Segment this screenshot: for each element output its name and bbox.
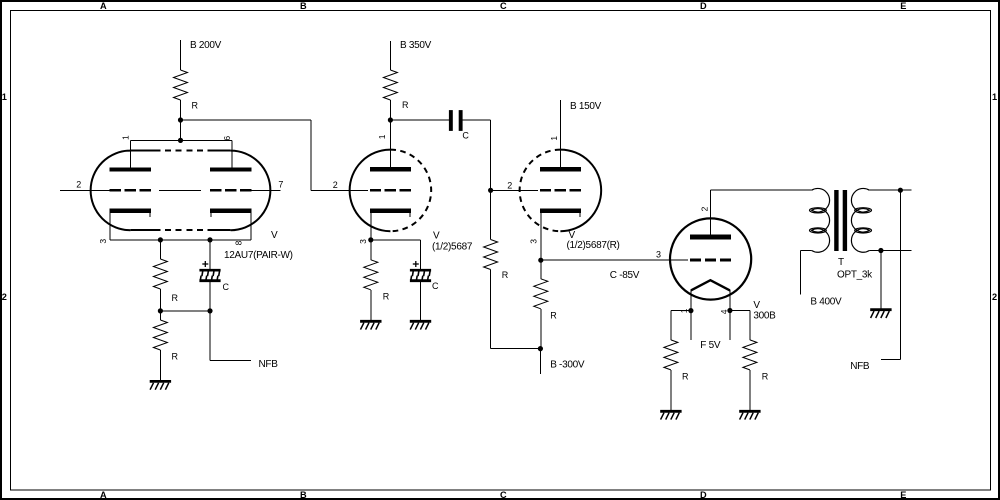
- wire V2 cathode to R5: [370, 240, 372, 260]
- wire R8 to ground: [749, 370, 751, 410]
- svg-text:B 150V: B 150V: [570, 101, 602, 112]
- svg-text:1: 1: [2, 92, 7, 102]
- wire secondary top: [869, 189, 911, 191]
- wire V3 cathode down to R6: [540, 260, 542, 279]
- svg-text:F 5V: F 5V: [700, 340, 721, 351]
- svg-text:C: C: [500, 1, 507, 11]
- wire stage1 plate to stage2 grid (horizontal): [181, 119, 312, 121]
- svg-text:12AU7(PAIR-W): 12AU7(PAIR-W): [224, 250, 293, 261]
- junction B-300V rail: [538, 346, 543, 351]
- svg-text:3: 3: [529, 239, 539, 244]
- resistor R5 (V2 cathode): [364, 260, 390, 302]
- V1 left plate: [110, 167, 151, 171]
- resistor R2b (cathode lower): [153, 320, 178, 362]
- junction secondary bottom: [878, 248, 883, 253]
- svg-text:V: V: [271, 230, 278, 241]
- V3 grid (dashed): [540, 189, 581, 192]
- svg-text:B: B: [300, 490, 307, 500]
- svg-text:C: C: [500, 490, 507, 500]
- wire C3 to ground: [420, 282, 422, 320]
- junction V2 plate node: [388, 117, 393, 122]
- svg-text:1: 1: [121, 135, 131, 140]
- svg-text:OPT_3k: OPT_3k: [837, 269, 873, 280]
- svg-text:D: D: [700, 490, 707, 500]
- wire secondary bottom: [869, 250, 911, 252]
- junction plate bus: [178, 138, 183, 143]
- V4 name label: [753, 300, 776, 322]
- svg-text:1: 1: [377, 134, 387, 139]
- node B 150V: [560, 100, 601, 168]
- tube V2 envelope (half dashed right): [350, 150, 432, 232]
- wire V4 plate to transformer primary: [711, 189, 812, 191]
- junction V2 cathode: [368, 237, 373, 242]
- V4 plate: [690, 234, 731, 239]
- ground secondary: [870, 310, 891, 318]
- wire primary bottom: [801, 250, 812, 252]
- V2 grid (dashed): [370, 189, 411, 192]
- V1 pin3 cathode leg: [109, 213, 111, 240]
- junction node stage1 plate: [178, 117, 183, 122]
- svg-text:E: E: [900, 490, 906, 500]
- svg-text:B -300V: B -300V: [550, 359, 585, 370]
- wire bus to C1: [209, 240, 211, 269]
- svg-text:V: V: [433, 230, 440, 241]
- V3 plate: [540, 167, 581, 171]
- V1 plate lead pin6: [231, 140, 233, 167]
- ground C3: [410, 321, 431, 329]
- resistor R1 (12AU7 plate load): [174, 70, 199, 111]
- tube V1 12AU7 envelope (stadium, dashed mid): [91, 151, 271, 231]
- node B 350V: [390, 40, 431, 70]
- V1 grid link wire: [159, 189, 201, 191]
- svg-text:R: R: [192, 101, 199, 111]
- wire V2 cathode to C3: [371, 239, 421, 241]
- V2 name label: [432, 230, 473, 252]
- svg-text:8: 8: [234, 240, 244, 245]
- V1 left grid (dashed): [110, 189, 151, 192]
- resistor R8 (filament right): [743, 340, 769, 382]
- junction V3 cathode: [538, 258, 543, 263]
- junction V3 grid node: [488, 188, 493, 193]
- svg-text:A: A: [100, 490, 107, 500]
- wire R6 to rail junction: [540, 309, 542, 349]
- wire R2a to R2b junction: [159, 289, 161, 320]
- svg-text:1: 1: [992, 92, 997, 102]
- svg-text:R: R: [762, 371, 769, 381]
- svg-text:T: T: [838, 257, 844, 268]
- transformer T primary winding: [810, 188, 830, 252]
- svg-text:R: R: [550, 311, 557, 321]
- V1 right plate: [210, 167, 251, 171]
- wire R3 to V2 plate: [389, 100, 391, 167]
- svg-text:2: 2: [2, 292, 7, 302]
- svg-text:V: V: [753, 300, 760, 311]
- svg-text:2: 2: [699, 206, 709, 211]
- svg-text:3: 3: [98, 239, 108, 244]
- junction filament left: [688, 308, 693, 313]
- ground filament right: [739, 411, 760, 419]
- transformer T secondary winding: [851, 188, 871, 252]
- V1 plate lead pin1: [130, 140, 132, 167]
- resistor R7 (filament left): [664, 340, 689, 382]
- svg-text:6: 6: [222, 136, 232, 141]
- wire rail horizontal: [491, 348, 541, 350]
- capacitor C1 (cathode bypass, electrolytic): [199, 261, 229, 292]
- wire to V3 grid: [491, 189, 538, 191]
- svg-text:R: R: [172, 352, 179, 362]
- svg-text:R: R: [402, 100, 409, 110]
- junction secondary top: [898, 188, 903, 193]
- tube V3 envelope (half dashed left): [520, 150, 602, 232]
- node B 200V: [181, 40, 222, 70]
- ground V2 cathode: [360, 321, 381, 329]
- V3 name label: [567, 230, 620, 251]
- svg-text:(1/2)5687: (1/2)5687: [432, 241, 473, 252]
- wire grid node down to R4: [490, 190, 492, 239]
- V2 cathode: [370, 211, 411, 217]
- resistor R3 (V2 plate load): [383, 70, 409, 110]
- svg-text:C: C: [432, 281, 439, 291]
- resistor R6 (V3 cathode): [534, 279, 557, 321]
- svg-text:R: R: [172, 293, 179, 303]
- svg-text:A: A: [100, 1, 107, 11]
- V1 cathode bus: [110, 239, 251, 241]
- svg-text:3: 3: [656, 249, 661, 259]
- transformer name label: [837, 257, 873, 281]
- V2 cathode leg pin3: [370, 213, 372, 240]
- resistor R4 (V3 grid leak): [484, 240, 509, 280]
- ground V1 cathode: [150, 381, 171, 389]
- wire NFB takeoff: [899, 190, 901, 359]
- capacitor C2 (coupling): [449, 110, 470, 141]
- svg-text:7: 7: [278, 179, 283, 189]
- svg-text:B: B: [300, 1, 307, 11]
- wire V3 grid vertical: [490, 120, 492, 190]
- V4 filament leg pin4: [729, 290, 731, 340]
- svg-text:(1/2)5687(R): (1/2)5687(R): [567, 240, 620, 251]
- V1 right grid (dashed): [210, 189, 251, 192]
- wire plate node to coupling cap: [390, 119, 449, 121]
- svg-text:V: V: [569, 230, 576, 241]
- svg-text:300B: 300B: [753, 310, 776, 321]
- resistor R2a (cathode upper): [153, 259, 178, 303]
- wire R1 bottom to plate bus: [180, 100, 182, 140]
- wire R5 to ground: [370, 290, 372, 320]
- V4 grid (dashed): [690, 258, 731, 261]
- ground filament left: [660, 411, 681, 419]
- V4 plate lead pin2: [710, 190, 712, 235]
- svg-text:B 400V: B 400V: [810, 297, 842, 308]
- wire C1 to NFB corner: [209, 282, 211, 360]
- wire filament right jog: [730, 310, 750, 312]
- V1 left cathode: [110, 211, 151, 218]
- wire cap to V3 grid corner: [463, 119, 491, 121]
- svg-text:NFB: NFB: [850, 361, 870, 372]
- junction cap/NFB: [207, 308, 212, 313]
- V2 plate lead: [389, 120, 391, 167]
- svg-text:R: R: [502, 270, 509, 280]
- svg-text:C: C: [462, 131, 469, 141]
- junction cathode bus left: [158, 237, 163, 242]
- wire bus to R2a: [159, 240, 161, 259]
- V1 top plate bus: [131, 139, 232, 141]
- node NFB (input): [210, 359, 278, 370]
- wire R4 to B-300V rail: [490, 270, 492, 349]
- V2 plate: [370, 167, 411, 171]
- svg-text:B 200V: B 200V: [190, 40, 222, 51]
- V1 pin 7 grid stub: [251, 189, 280, 191]
- svg-text:D: D: [700, 1, 707, 11]
- V3 cathode: [540, 211, 581, 217]
- wire stage2 grid vertical drop: [310, 120, 312, 190]
- wire to tube V2 grid: [311, 189, 368, 191]
- junction cathode bus right: [207, 237, 212, 242]
- wire filament left jog: [671, 310, 691, 312]
- capacitor C3 (V2 bypass, electrolytic): [410, 261, 439, 291]
- svg-text:R: R: [682, 371, 689, 381]
- wire V3 cathode to 300B grid: [541, 259, 688, 261]
- V1 pin 2 grid stub: [60, 189, 110, 191]
- V1 pin8 cathode leg: [250, 213, 252, 240]
- junction filament right: [727, 308, 732, 313]
- svg-text:2: 2: [333, 180, 338, 190]
- tube V4 300B envelope: [670, 218, 751, 299]
- svg-text:3: 3: [358, 239, 368, 244]
- V1 name label: [224, 230, 293, 261]
- svg-text:B 350V: B 350V: [400, 40, 432, 51]
- svg-text:1: 1: [549, 136, 559, 141]
- V4 filament: [691, 280, 730, 290]
- V3 cathode leg pin3: [540, 213, 542, 260]
- svg-text:2: 2: [76, 179, 81, 189]
- svg-text:2: 2: [992, 292, 997, 302]
- svg-text:C: C: [223, 282, 230, 292]
- wire mid link: [160, 310, 210, 312]
- svg-text:E: E: [900, 1, 906, 11]
- transformer core: [834, 190, 847, 251]
- V1 right cathode: [210, 211, 251, 218]
- svg-text:C -85V: C -85V: [610, 270, 640, 281]
- wire secondary bottom to ground: [880, 251, 882, 309]
- svg-text:2: 2: [507, 180, 512, 190]
- node B -300V: [540, 349, 584, 374]
- svg-text:R: R: [383, 292, 390, 302]
- wire R7 to ground: [670, 370, 672, 410]
- wire R2b to ground: [159, 350, 161, 380]
- svg-text:NFB: NFB: [259, 359, 279, 370]
- V4 filament leg pin1: [690, 290, 692, 340]
- junction mid cathode: [158, 308, 163, 313]
